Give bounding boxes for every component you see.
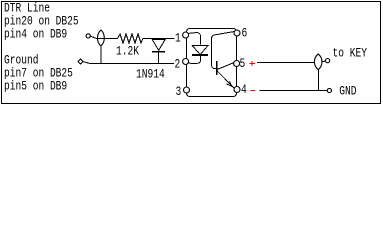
svg-text:1: 1 (175, 32, 181, 46)
svg-text:6: 6 (242, 27, 248, 41)
svg-text:5: 5 (240, 58, 246, 72)
svg-text:DTR Line: DTR Line (4, 2, 50, 16)
svg-text:pin5 on DB9: pin5 on DB9 (4, 80, 67, 94)
svg-text:pin7 on DB25: pin7 on DB25 (4, 67, 73, 81)
svg-text:4: 4 (241, 84, 247, 98)
svg-text:to KEY: to KEY (333, 47, 368, 61)
svg-text:1.2K: 1.2K (116, 45, 139, 59)
svg-text:1N914: 1N914 (136, 68, 165, 82)
svg-text:GND: GND (339, 85, 356, 99)
svg-text:2: 2 (175, 58, 181, 72)
svg-text:pin20 on DB25: pin20 on DB25 (4, 15, 79, 29)
svg-text:3: 3 (176, 86, 182, 100)
svg-text:Ground: Ground (4, 54, 38, 68)
svg-text:pin4 on DB9: pin4 on DB9 (4, 28, 67, 42)
